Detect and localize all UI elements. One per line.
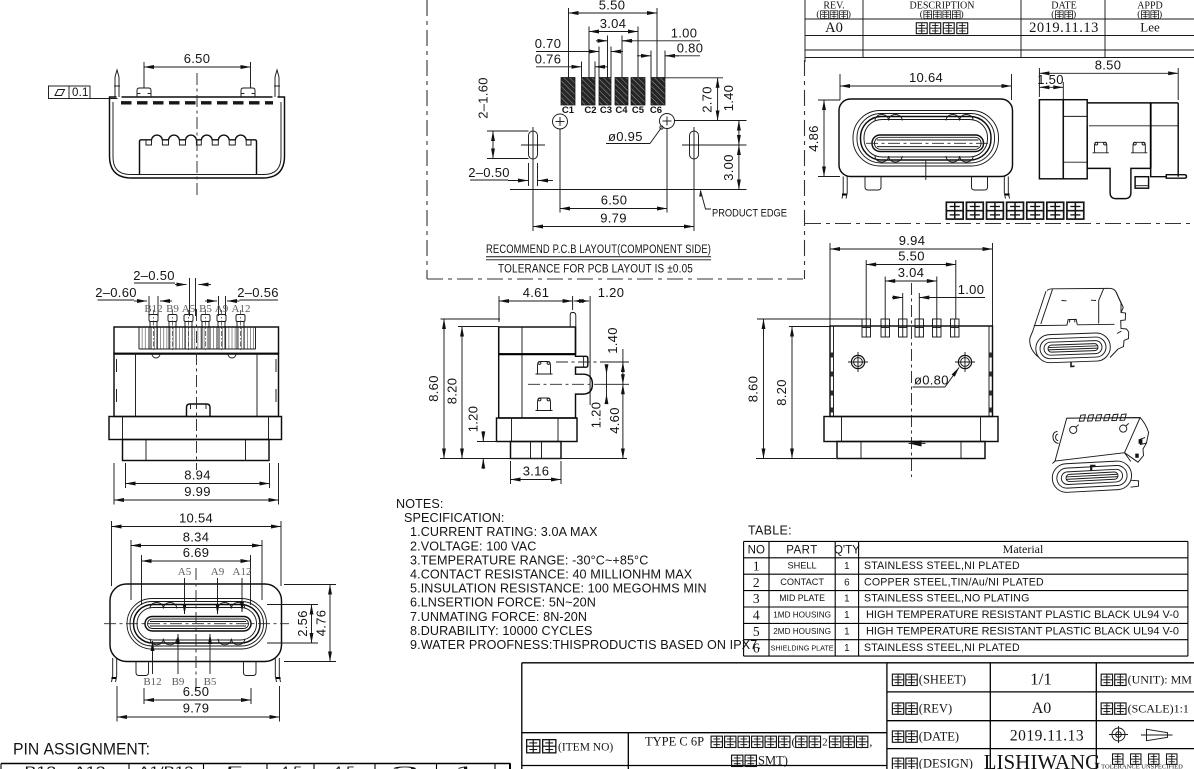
heavy shell line side <box>499 353 576 355</box>
svg-text:1.00: 1.00 <box>671 26 698 41</box>
contact bumps top <box>150 603 163 609</box>
bottom right piece <box>1110 349 1118 358</box>
svg-text:8.34: 8.34 <box>183 530 210 545</box>
bent shell tab <box>570 313 576 328</box>
svg-text:(ITEM NO): (ITEM NO) <box>558 742 613 754</box>
svg-text:Lee: Lee <box>1140 20 1160 35</box>
svg-text:5.50: 5.50 <box>898 249 925 264</box>
svg-text:(DATE): (DATE) <box>919 729 959 743</box>
dim 10.64 <box>840 70 1012 100</box>
svg-text:8.60: 8.60 <box>746 376 761 403</box>
label REV <box>892 701 952 715</box>
dim 4.76 right <box>284 585 336 662</box>
dim 9.94 <box>830 233 993 326</box>
svg-text:6.50: 6.50 <box>601 193 628 208</box>
dim 1.40 <box>738 121 740 146</box>
svg-text:3.16: 3.16 <box>523 464 550 479</box>
svg-text:5: 5 <box>226 764 245 769</box>
svg-text:1.40: 1.40 <box>721 85 736 112</box>
svg-text:): ) <box>961 9 964 20</box>
svg-text:2MD HOUSING: 2MD HOUSING <box>773 627 831 636</box>
body top band with hatch <box>114 327 279 354</box>
svg-text:A0: A0 <box>825 20 843 36</box>
dim 2-1.60 <box>476 77 529 158</box>
svg-text:1.20: 1.20 <box>589 402 604 429</box>
svg-text:2019.11.13: 2019.11.13 <box>1029 20 1099 36</box>
svg-text:5: 5 <box>753 624 760 639</box>
svg-text:9.99: 9.99 <box>184 484 211 499</box>
bottom block <box>123 440 270 461</box>
label tolerance unspecified (CJK) <box>1113 754 1177 764</box>
dim 3.00 <box>738 145 740 190</box>
left front corner <box>1030 339 1039 358</box>
side shield tabs <box>830 353 992 413</box>
right profile with SMT pad and tab <box>576 327 593 418</box>
svg-text:PART: PART <box>786 545 818 557</box>
svg-text:SPECIFICATION:: SPECIFICATION: <box>404 511 505 525</box>
svg-text:(: ( <box>1137 9 1140 20</box>
dim 6.50 top <box>144 51 251 88</box>
right face and pins <box>1116 292 1129 349</box>
phantom border <box>426 0 428 279</box>
svg-text:(UNIT): MM: (UNIT): MM <box>1128 673 1193 687</box>
dim 6.50 bottom <box>144 684 251 704</box>
svg-text:2–1.60: 2–1.60 <box>476 77 491 119</box>
dim 2.56 right <box>267 605 318 644</box>
left side pin <box>114 70 120 97</box>
svg-text:8.50: 8.50 <box>1095 57 1122 72</box>
dim 0.80 <box>637 55 651 57</box>
hole C6 <box>660 114 675 129</box>
dim 0.70 <box>536 51 599 53</box>
dim 1.20 left <box>465 406 497 469</box>
svg-text:1MD HOUSING: 1MD HOUSING <box>773 611 831 620</box>
svg-text:5.50: 5.50 <box>599 0 626 13</box>
svg-text:(: ( <box>1051 9 1054 20</box>
dashed shell seam <box>121 101 273 104</box>
side flange <box>497 418 578 442</box>
stadium front <box>1052 460 1133 493</box>
svg-text:2.70: 2.70 <box>700 86 715 113</box>
svg-text:RECOMMEND P.C.B LAYOUT(COMPONE: RECOMMEND P.C.B LAYOUT(COMPONENT SIDE) <box>486 244 711 256</box>
ground line <box>440 458 627 460</box>
hatch fill of top band <box>139 328 254 349</box>
dim 8.60 side <box>426 319 500 459</box>
bottom pegs <box>136 662 149 676</box>
svg-text:4.5: 4.5 <box>280 764 302 769</box>
label DATE <box>892 729 959 743</box>
svg-text:0.80: 0.80 <box>677 40 704 55</box>
item name line 1 <box>645 735 872 749</box>
dim 8.50 <box>1039 57 1178 100</box>
dim 2-0.50 <box>133 268 211 316</box>
iso2 pin row <box>1067 414 1140 421</box>
svg-text:0.76: 0.76 <box>535 51 562 66</box>
dim 2-0.56 <box>205 285 279 316</box>
ring holder column <box>1063 100 1087 179</box>
dim 1.50 <box>1037 72 1064 101</box>
front top edge <box>1034 324 1115 325</box>
dash-dot through pad and tab <box>556 361 600 363</box>
dim 1.40 / 4.60 right <box>600 327 629 458</box>
svg-text:8.20: 8.20 <box>774 379 789 406</box>
dim 4.86 <box>806 100 840 177</box>
dim 3.16 <box>511 461 562 484</box>
svg-text:C5: C5 <box>632 105 645 116</box>
dim 1.20 top <box>574 285 625 405</box>
hole left <box>848 352 868 372</box>
dim 5.50 top view <box>866 249 956 320</box>
svg-text:LISHIWANG: LISHIWANG <box>984 750 1101 769</box>
top view tail <box>837 442 985 459</box>
svg-text:8.DURABILITY: 10000 CYCLES: 8.DURABILITY: 10000 CYCLES <box>410 624 593 638</box>
dim 0.76 <box>536 66 582 68</box>
svg-text:A5: A5 <box>178 566 192 578</box>
body outline <box>110 584 282 662</box>
svg-text:9.79: 9.79 <box>600 211 627 226</box>
dim 4.61 <box>499 285 573 322</box>
svg-text:C6: C6 <box>650 105 662 116</box>
bottom right piece <box>1131 480 1139 487</box>
dim 9.99 <box>114 463 279 505</box>
svg-text:4.60: 4.60 <box>607 407 622 434</box>
svg-text:1.40: 1.40 <box>605 327 620 354</box>
svg-text:8.94: 8.94 <box>184 468 211 483</box>
horizontal centerline <box>104 623 289 625</box>
svg-text:C2: C2 <box>584 105 596 116</box>
svg-text:8.60: 8.60 <box>426 375 441 402</box>
svg-text:B12↔A12: B12↔A12 <box>25 764 106 769</box>
svg-text:4: 4 <box>753 608 760 623</box>
clips <box>1093 142 1109 153</box>
ticks on top face <box>1062 299 1097 302</box>
tongue notch mark <box>1091 466 1095 471</box>
dim 8.94 <box>126 463 270 488</box>
svg-text:HIGH TEMPERATURE RESISTANT: HIGH TEMPERATURE RESISTANT PLASTIC BLACK… <box>866 609 1179 621</box>
svg-text:): ) <box>1159 9 1162 20</box>
projection symbols <box>1109 726 1173 743</box>
label DESIGN <box>892 757 973 769</box>
svg-text:ø0.95: ø0.95 <box>608 129 643 144</box>
svg-text:Material: Material <box>1003 542 1044 556</box>
pin assignment table grid <box>1 764 511 769</box>
dim 3.04 <box>589 31 638 33</box>
side solder pins <box>112 658 117 682</box>
svg-text:4.5: 4.5 <box>333 764 355 769</box>
svg-text:4.76: 4.76 <box>314 610 329 637</box>
svg-text:3.04: 3.04 <box>600 16 627 31</box>
centerline view1 <box>196 73 198 198</box>
svg-text:NO: NO <box>748 545 765 557</box>
oval pad left <box>529 131 538 159</box>
svg-text:9.WATER PROOFNESS:THISPRODUCTI: 9.WATER PROOFNESS:THISPRODUCTIS BASED ON… <box>410 638 761 652</box>
svg-text:6.LNSERTION FORCE: 5N~20N: 6.LNSERTION FORCE: 5N~20N <box>410 596 596 610</box>
top face <box>1055 418 1140 462</box>
tongue <box>145 617 251 632</box>
revision row hanzi new drawing <box>916 23 967 34</box>
isometric view upper <box>1030 288 1129 366</box>
contact bumps bottom <box>150 639 163 645</box>
dim 8.20 top view <box>774 327 830 459</box>
svg-text:2–0.50: 2–0.50 <box>133 268 175 283</box>
dim 2-0.50 pcb <box>468 163 553 186</box>
product edge leader <box>701 191 712 210</box>
right SMT pad <box>1166 175 1186 179</box>
svg-text:1.20: 1.20 <box>465 406 480 433</box>
dim 6.69 <box>142 545 251 605</box>
svg-text:1: 1 <box>844 627 849 638</box>
right side pin <box>274 70 280 97</box>
header hanzi DESCRIPTION <box>920 9 964 20</box>
svg-text:TABLE:: TABLE: <box>748 524 792 538</box>
dim 8.60 top view <box>746 319 863 459</box>
svg-text:A12: A12 <box>232 303 251 315</box>
svg-text:8.20: 8.20 <box>445 378 460 405</box>
svg-text:TOLERANCE UNSPECIFIED: TOLERANCE UNSPECIFIED <box>1101 764 1183 769</box>
dim 9.79 bottom <box>117 686 280 722</box>
svg-text:4.86: 4.86 <box>806 125 821 152</box>
svg-text:): ) <box>1073 9 1076 20</box>
item name line 2 <box>732 754 788 768</box>
svg-text:TYPE C 6P: TYPE C 6P <box>645 735 704 749</box>
svg-text:3: 3 <box>391 764 420 769</box>
svg-text:(SHEET): (SHEET) <box>919 673 966 687</box>
svg-text:2: 2 <box>753 575 760 590</box>
svg-text:MID PLATE: MID PLATE <box>779 593 825 603</box>
centerline view2 <box>196 309 198 470</box>
svg-text:0.70: 0.70 <box>535 36 562 51</box>
dim 8.20 side <box>445 327 499 459</box>
seal rings <box>127 599 267 650</box>
svg-text:1: 1 <box>844 610 849 621</box>
svg-text:3.00: 3.00 <box>721 154 736 181</box>
svg-text:2–0.60: 2–0.60 <box>95 285 137 300</box>
wp bottom pegs <box>865 177 881 191</box>
wp side view: waterproof ring block <box>1039 100 1063 179</box>
pins B12 B9 A5 B5 A9 A12 <box>149 310 245 351</box>
svg-text:STAINLESS STEEL,NO PLATING: STAINLESS STEEL,NO PLATING <box>864 593 1030 605</box>
side seam tabs <box>116 359 118 372</box>
svg-text:1/1: 1/1 <box>1030 670 1052 689</box>
svg-text:1: 1 <box>455 764 476 769</box>
stadium rings front <box>1035 332 1110 363</box>
screw bosses <box>1070 426 1077 433</box>
wp front body <box>839 99 1013 177</box>
wp contact bumps <box>875 115 889 121</box>
svg-text:4.CONTACT RESISTANCE: 40 MILLI: 4.CONTACT RESISTANCE: 40 MILLIONHM MAX <box>410 568 693 582</box>
caption: waterproof ring illustration (CJK) <box>946 202 1083 219</box>
svg-text:(: ( <box>792 735 796 749</box>
side body bottom profile <box>1087 126 1166 199</box>
svg-text:A9: A9 <box>211 566 225 578</box>
svg-text:6.50: 6.50 <box>184 51 211 66</box>
svg-text:COPPER STEEL,TIN/Au/NI PLATE: COPPER STEEL,TIN/Au/NI PLATED <box>864 576 1044 588</box>
svg-text:5.INSULATION RESISTANCE: 100 M: 5.INSULATION RESISTANCE: 100 MEGOHMS MIN <box>410 582 707 596</box>
svg-text:PRODUCT EDGE: PRODUCT EDGE <box>712 208 787 220</box>
tongue with contact bumps <box>140 135 257 174</box>
left slant edges <box>1030 291 1046 338</box>
svg-text:(DESIGN): (DESIGN) <box>919 757 973 769</box>
top mounting peg left <box>137 88 151 97</box>
side mid block <box>498 327 500 418</box>
dim 5.50 <box>569 12 658 14</box>
header hanzi APPD <box>1137 9 1162 20</box>
side tail <box>511 442 562 459</box>
svg-text:TOLERANCE FOR PCB LAYOUT IS ±0: TOLERANCE FOR PCB LAYOUT IS ±0.05 <box>498 264 693 276</box>
dim 10.54 <box>112 511 282 587</box>
svg-text:(REV): (REV) <box>919 701 952 715</box>
dim 1.20 right small <box>589 366 607 429</box>
dim 2.70 <box>665 77 723 79</box>
dim 1.00 <box>596 40 608 42</box>
svg-text:A12: A12 <box>233 566 252 578</box>
left hook <box>1053 431 1059 443</box>
svg-text:7.UNMATING FORCE: 8N-20N: 7.UNMATING FORCE: 8N-20N <box>410 610 587 624</box>
extension lines up from pads <box>568 8 570 78</box>
svg-text:ø0.80: ø0.80 <box>914 373 949 388</box>
top view body <box>830 326 993 417</box>
svg-text:6: 6 <box>753 640 760 655</box>
hole C1 <box>553 114 568 129</box>
center bump <box>187 404 211 417</box>
svg-text:3.TEMPERATURE RANGE: -30°C~+85: 3.TEMPERATURE RANGE: -30°C~+85°C <box>410 553 648 567</box>
shell body outline <box>110 97 285 178</box>
svg-text:2–0.50: 2–0.50 <box>468 165 510 180</box>
svg-text:6: 6 <box>844 577 850 588</box>
svg-text:C4: C4 <box>615 105 628 116</box>
svg-text:1.00: 1.00 <box>958 282 985 297</box>
top notch <box>1067 319 1078 325</box>
svg-text:6.69: 6.69 <box>183 545 210 560</box>
six SMT pins <box>862 319 959 337</box>
svg-text:SHELL: SHELL <box>788 560 817 570</box>
label pinming ITEM NO <box>527 740 614 754</box>
svg-text:REV.: REV. <box>823 1 844 12</box>
product edge line <box>510 189 747 191</box>
top mounting peg right <box>241 88 255 97</box>
svg-text:9.79: 9.79 <box>183 701 210 716</box>
svg-text:CONTACT: CONTACT <box>780 577 824 587</box>
svg-text:): ) <box>848 9 851 20</box>
svg-text:1: 1 <box>844 594 849 605</box>
svg-text:2: 2 <box>822 737 828 749</box>
label SCALE 1:1 <box>1101 701 1189 715</box>
dim 8.34 <box>131 530 262 601</box>
shell inner line <box>113 102 281 175</box>
svg-text:3.04: 3.04 <box>898 265 925 280</box>
top view flange <box>824 417 998 442</box>
svg-text:4.61: 4.61 <box>523 285 550 300</box>
center tick bottom <box>1071 362 1075 367</box>
svg-text:A1/B12: A1/B12 <box>139 764 194 769</box>
svg-text:1.20: 1.20 <box>598 285 625 300</box>
svg-text:A0: A0 <box>1032 700 1052 717</box>
mid body <box>114 354 279 417</box>
svg-text:(SCALE)1:1: (SCALE)1:1 <box>1128 701 1189 715</box>
svg-text:NOTES:: NOTES: <box>396 497 443 511</box>
svg-text:1.50: 1.50 <box>1037 72 1064 87</box>
hole right <box>955 352 975 372</box>
svg-text:,: , <box>869 735 872 749</box>
wp seal rings <box>853 111 999 167</box>
pads C1-C6 <box>561 78 665 106</box>
right face <box>1125 418 1149 463</box>
svg-text:1: 1 <box>844 643 849 654</box>
svg-text:SMT): SMT) <box>758 754 788 768</box>
svg-text:SHIELDING PLATE: SHIELDING PLATE <box>771 643 834 652</box>
boundary dash-dot <box>805 223 1194 225</box>
svg-text:9.94: 9.94 <box>899 233 926 248</box>
side body top block <box>499 327 576 354</box>
front bevel band <box>1052 453 1130 464</box>
svg-text:1: 1 <box>844 561 849 572</box>
header hanzi REV <box>816 9 851 20</box>
svg-text:2019.11.13: 2019.11.13 <box>1010 728 1084 745</box>
svg-text:(: ( <box>920 9 923 20</box>
svg-text:HIGH TEMPERATURE RESISTANT: HIGH TEMPERATURE RESISTANT PLASTIC BLACK… <box>866 626 1179 638</box>
label UNIT MM <box>1101 673 1192 687</box>
oval pad right <box>690 131 699 159</box>
material table grid <box>744 541 1188 656</box>
svg-text:2.VOLTAGE: 100 VAC: 2.VOLTAGE: 100 VAC <box>410 539 536 553</box>
dim 9.79 pcb <box>533 226 694 228</box>
wp side pins <box>842 177 847 199</box>
rear solder leg <box>1135 177 1149 189</box>
header hanzi DATE <box>1051 9 1076 20</box>
svg-text:1: 1 <box>753 558 760 573</box>
svg-text:PIN ASSIGNMENT:: PIN ASSIGNMENT: <box>13 740 150 759</box>
svg-text:0.1: 0.1 <box>72 87 89 99</box>
side body <box>1087 102 1178 104</box>
svg-text:6.50: 6.50 <box>183 684 210 699</box>
clips side view <box>536 362 553 375</box>
isometric view lower <box>1052 414 1149 493</box>
right face clips <box>1140 438 1147 445</box>
svg-text:STAINLESS STEEL,NI PLATED: STAINLESS STEEL,NI PLATED <box>864 642 1020 654</box>
section mark at center bottom <box>909 440 922 446</box>
svg-text:C3: C3 <box>600 105 612 116</box>
label SHEET <box>892 673 966 687</box>
svg-text:STAINLESS STEEL,NI PLATED: STAINLESS STEEL,NI PLATED <box>864 560 1020 572</box>
svg-text:2–0.56: 2–0.56 <box>237 285 279 300</box>
right slant edges <box>1110 288 1124 307</box>
heavy shell line <box>114 353 279 355</box>
dim 3.04 top view <box>885 265 937 319</box>
svg-text:Q'TY: Q'TY <box>834 545 860 557</box>
svg-text:3: 3 <box>753 591 760 606</box>
back top edge <box>1047 288 1110 290</box>
svg-text:B12: B12 <box>143 676 161 688</box>
wp tongue <box>872 135 984 152</box>
svg-text:1.CURRENT RATING: 3.0A MAX: 1.CURRENT RATING: 3.0A MAX <box>410 525 598 539</box>
center line top view <box>911 283 913 477</box>
svg-text:10.54: 10.54 <box>179 511 213 526</box>
vertical centerline <box>195 568 197 692</box>
dim 6.50 pcb <box>559 130 561 213</box>
dim 2-0.60 <box>95 285 172 316</box>
dim 1.00 top view <box>892 282 985 319</box>
flatness callout 0.1 <box>49 86 118 99</box>
flange <box>109 417 282 440</box>
svg-text:10.64: 10.64 <box>909 70 943 85</box>
svg-text:C1: C1 <box>562 105 575 116</box>
tongue notches <box>162 140 168 145</box>
svg-text:(: ( <box>816 9 819 20</box>
material table rows <box>753 558 1179 655</box>
svg-text:2.56: 2.56 <box>295 610 310 637</box>
